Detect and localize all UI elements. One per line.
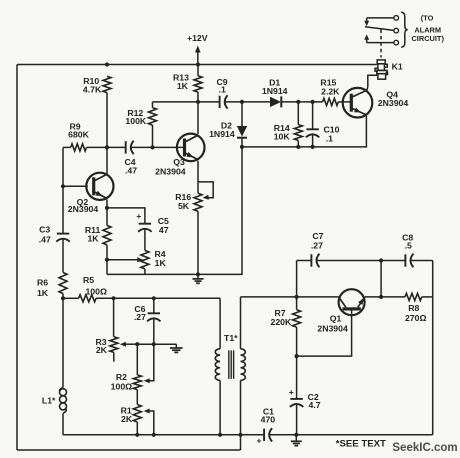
transistor Q1 2N3904 rotated — [339, 289, 365, 315]
svg-text:100Ω: 100Ω — [111, 382, 132, 392]
node junction dot Q2 emitter — [105, 206, 109, 210]
capacitor C10 .1 — [312, 102, 314, 129]
node junction dot R2 column top — [135, 342, 139, 346]
resistor R4 1K trimmer — [141, 250, 149, 269]
wire bottom rail — [63, 434, 264, 436]
node junction dot R7 bottom / Q1 base — [295, 354, 299, 358]
wire R13 bottom to main rail — [197, 92, 199, 102]
wire Q2 emitter junction line to C5 — [107, 200, 145, 224]
wire C7 to C8 — [316, 260, 405, 262]
svg-text:1K: 1K — [155, 258, 167, 268]
wire C8 to right border — [410, 260, 432, 262]
resistor R12 100K — [152, 102, 154, 108]
wire R4 wiper arrow — [107, 259, 138, 261]
svg-text:4.7: 4.7 — [309, 400, 321, 410]
svg-text:10K: 10K — [274, 132, 291, 142]
node junction dot Q1 collector / R7 / C7 branch — [295, 295, 299, 299]
resistor R2 100ohm trimmer — [136, 344, 138, 375]
inductor L1 — [62, 298, 64, 387]
wire R3 wiper arrow — [125, 343, 137, 345]
wire top +12V rail — [17, 64, 377, 66]
diode D1 1N914 — [270, 97, 281, 107]
wire R8 to right border — [422, 296, 433, 298]
svg-text:SeekIC.com: SeekIC.com — [392, 442, 457, 454]
ground symbol below R16 — [197, 274, 199, 279]
resistor R16 5K rheostat — [194, 193, 202, 211]
wire R16 bottom column — [197, 211, 199, 274]
node junction dot C7/C8/riser — [379, 258, 383, 262]
node junction dot C10 top — [311, 100, 315, 104]
resistor R7 220K — [296, 297, 298, 310]
svg-text:2K: 2K — [121, 414, 133, 424]
node junction dot R10-bottom/Q2-collector — [105, 145, 109, 149]
wire R1 wiper — [149, 411, 154, 435]
wire collector riser — [380, 261, 382, 297]
resistor R13 1K — [194, 76, 202, 92]
svg-text:T1*: T1* — [224, 333, 238, 343]
svg-text:2N3904: 2N3904 — [155, 166, 186, 176]
svg-text:+: + — [289, 387, 294, 397]
brace to alarm circuit — [401, 12, 407, 47]
node junction dot R12 bottom — [150, 145, 154, 149]
svg-text:2K: 2K — [96, 345, 108, 355]
transformer T1 primary winding — [219, 298, 221, 349]
node junction dot Q1 right node — [379, 295, 383, 299]
capacitor C1 470 polarized — [263, 429, 265, 441]
resistor R10 4.7K — [103, 76, 111, 92]
wire R15 to Q4 base — [338, 101, 351, 103]
capacitor C8 .5 — [404, 254, 406, 266]
svg-text:C3: C3 — [39, 224, 50, 234]
svg-text:1N914: 1N914 — [209, 129, 235, 139]
wire main rail R12-top to C9 — [153, 101, 220, 103]
node junction dot transformer primary bottom — [218, 433, 222, 437]
svg-text:270Ω: 270Ω — [405, 313, 426, 323]
wire D2-bottom line to Q4 emitter — [242, 116, 366, 147]
resistor R6 1K — [59, 273, 67, 294]
node junction dot R14 bottom — [296, 145, 300, 149]
svg-text:4.7K: 4.7K — [83, 85, 102, 95]
transformer T1 core — [228, 350, 230, 378]
node junction dot R14 top — [296, 100, 300, 104]
svg-text:Q3: Q3 — [173, 157, 185, 167]
svg-text:100K: 100K — [125, 116, 146, 126]
svg-text:470: 470 — [261, 415, 276, 425]
resistor R11 1K — [106, 208, 108, 226]
wire R13 top stub — [197, 65, 199, 76]
wire Q1 line from transformer — [241, 296, 339, 298]
wire Q2 base — [63, 185, 88, 187]
svg-text:2N3904: 2N3904 — [378, 98, 409, 108]
svg-text:1N914: 1N914 — [262, 86, 288, 96]
wire base line left corner — [63, 146, 71, 148]
relay coil K1 — [375, 60, 387, 79]
svg-text:.27: .27 — [134, 312, 146, 322]
wire R9 to C4 — [87, 146, 126, 148]
svg-text:100Ω: 100Ω — [85, 287, 106, 297]
node junction dot C6 top — [152, 296, 156, 300]
svg-text:L1*: L1* — [42, 396, 56, 406]
transistor Q4 2N3904 — [343, 88, 373, 118]
capacitor C4 .47 — [125, 141, 127, 153]
wire R6 bottom — [62, 294, 64, 299]
wire lower rail to transformer — [96, 297, 220, 299]
wire C4 to Q3 base — [131, 146, 184, 148]
node junction dot Q2 base column — [61, 184, 65, 188]
svg-text:.27: .27 — [311, 241, 323, 251]
node junction dot C6 bottom — [152, 342, 156, 346]
transistor Q2 2N3904 — [86, 173, 113, 200]
diode D2 1N914 — [241, 102, 243, 126]
transistor Q3 2N3904 — [177, 134, 205, 162]
wire R10 column — [106, 93, 108, 174]
svg-text:(TO: (TO — [421, 14, 434, 23]
resistor R14 10K — [297, 102, 299, 125]
capacitor C9 .1 — [219, 96, 221, 108]
node junction dot R13 top / +12V — [196, 62, 200, 66]
capacitor C5 47 polarized — [139, 223, 151, 225]
node junction dot R11 bottom wiper line — [105, 258, 109, 262]
relay contact middle arm — [365, 27, 394, 31]
ground symbol output — [295, 435, 297, 442]
wire node line R3-wiper/C6/ground — [137, 343, 176, 345]
node junction dot R13 bottom — [196, 100, 200, 104]
wire Q3 emitter column — [197, 161, 199, 193]
wire bottom border — [17, 449, 241, 451]
svg-text:+12V: +12V — [187, 33, 208, 43]
wire right border — [432, 261, 434, 435]
svg-text:*SEE TEXT: *SEE TEXT — [336, 439, 386, 450]
svg-text:680K: 680K — [68, 130, 89, 140]
node junction dot R1 bottom — [135, 433, 139, 437]
svg-text:2N3904: 2N3904 — [317, 324, 348, 334]
capacitor C7 .27 — [310, 254, 312, 266]
wire R2 wiper — [149, 344, 154, 381]
node junction dot D2 bottom — [240, 145, 244, 149]
svg-text:K1: K1 — [392, 61, 403, 71]
wire Q1 right to R8 — [365, 296, 405, 298]
node junction dot C10 bottom — [311, 145, 315, 149]
relay contact bottom arm — [367, 42, 394, 44]
svg-text:1K: 1K — [177, 81, 189, 91]
wire C1 to ground junction — [269, 434, 433, 436]
node junction dot D2 top — [240, 100, 244, 104]
wire top line corner to C7 — [297, 260, 312, 262]
transformer T1 secondary winding — [240, 297, 242, 349]
node junction dot R3 top — [112, 296, 116, 300]
wire C5 to R4 — [144, 229, 146, 251]
svg-text:.47: .47 — [39, 235, 51, 245]
wire dashed mechanical link to contacts — [380, 30, 382, 58]
wire D1 to R15 — [281, 101, 322, 103]
svg-text:2N3904: 2N3904 — [68, 204, 99, 214]
capacitor C3 .47 — [57, 233, 69, 235]
node junction dot R1 wiper — [152, 433, 156, 437]
svg-text:+: + — [257, 435, 262, 445]
wire C2 bottom — [296, 404, 298, 435]
wire C3 to R6 — [62, 239, 64, 273]
wire Q3 collector column — [197, 102, 199, 134]
wire left border — [16, 65, 18, 451]
svg-text:1K: 1K — [37, 288, 49, 298]
resistor R8 270ohm — [405, 293, 422, 300]
node +12V supply arrow — [197, 50, 199, 65]
svg-text:.5: .5 — [405, 241, 412, 251]
svg-text:220K: 220K — [271, 317, 292, 327]
wire R16 wiper loop — [198, 182, 213, 198]
svg-text:Q1: Q1 — [330, 314, 342, 324]
wire ground line — [107, 147, 242, 275]
node junction dot R16 bottom ground — [196, 272, 200, 276]
ground symbol mixer node — [175, 344, 177, 348]
svg-text:.47: .47 — [125, 166, 137, 176]
relay contact top arm — [367, 17, 394, 19]
resistor R15 2.2K — [323, 98, 339, 105]
svg-text:R8: R8 — [408, 303, 419, 313]
node junction dot R6/L1/R5 — [61, 296, 65, 300]
wire Q1 base lead — [297, 311, 352, 357]
capacitor C6 .27 — [153, 298, 155, 313]
svg-text:R6: R6 — [37, 278, 48, 288]
node junction dot transformer secondary bottom — [238, 433, 242, 437]
capacitor C2 4.7 polarized — [296, 356, 298, 399]
svg-text:47: 47 — [159, 225, 169, 235]
wire C7 branch riser — [296, 261, 298, 297]
svg-text:.1: .1 — [326, 134, 333, 144]
svg-text:C7: C7 — [312, 231, 323, 241]
svg-text:CIRCUIT): CIRCUIT) — [411, 34, 444, 43]
svg-text:2.2K: 2.2K — [321, 87, 340, 97]
wire bottom border riser to rail junction — [240, 435, 242, 450]
svg-text:R5: R5 — [83, 275, 94, 285]
node junction dot R10 top — [105, 62, 109, 66]
resistor R9 680K — [71, 144, 87, 151]
resistor R5 100ohm — [63, 297, 79, 299]
wire left column R9-corner to C3 — [62, 147, 64, 233]
svg-text:+: + — [136, 211, 141, 221]
svg-text:1K: 1K — [87, 234, 99, 244]
resistor R3 2K trimmer — [113, 298, 115, 336]
wire Q4 collector to relay coil — [367, 75, 378, 90]
relay contact terminals — [394, 16, 399, 21]
svg-text:.1: .1 — [219, 85, 226, 95]
wire C9 to D1 — [225, 101, 271, 103]
resistor R1 2K trimmer — [136, 390, 138, 405]
svg-text:5K: 5K — [178, 201, 190, 211]
node junction dot C2/C1 ground — [294, 433, 298, 437]
